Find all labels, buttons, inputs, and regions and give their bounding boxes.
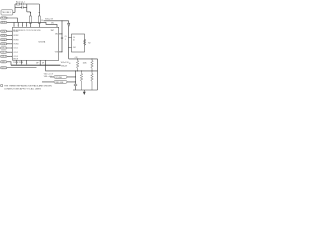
resistor R4 lower [80,71,82,90]
connector pill HS2 [0,21,7,24]
svg-text:RZ: RZ [88,42,90,44]
svg-text:XMT: XMT [51,30,54,32]
svg-text:10: 10 [69,63,71,65]
capacitor C5 in rail [61,37,63,38]
svg-text:100K: 100K [83,63,88,65]
connector pill HS1 [0,17,7,20]
svg-text:TIP LINE: TIP LINE [55,77,61,79]
IC bottom stubs to bus [16,60,27,65]
svg-text:COL 2: COL 2 [1,52,6,54]
wire pill10 to bus [7,62,11,65]
svg-text:VDD=2.5V: VDD=2.5V [45,18,54,20]
resistor R5 lower [91,71,93,90]
connector pill P10 [0,61,6,64]
keypad pill K5 [0,47,6,50]
svg-text:THE THREE REPEATED KEYPADS ARE: THE THREE REPEATED KEYPADS ARE SHOWN [4,84,52,87]
piezo zigzag Z1 [83,39,86,45]
svg-text:ROW 1: ROW 1 [1,31,6,33]
capacitor C5 branch [74,71,77,90]
svg-text:S2559A: S2559A [38,40,45,43]
wire J1 to node A [13,11,15,13]
svg-text:C4: C4 [73,37,75,39]
keypad pill K1 [0,30,6,33]
keypad arrows into IC [7,31,13,57]
svg-text:COL 1: COL 1 [1,48,6,50]
svg-text:ROW4: ROW4 [14,43,19,45]
svg-text:ROW 3: ROW 3 [1,39,6,41]
svg-text:MF: MF [36,62,38,64]
keypad pill K3 [0,38,6,41]
pill P2 (ring) [54,81,67,84]
ground arrow [83,90,86,95]
junction dot line1 [62,20,63,21]
right rail [96,59,98,90]
wire P2 [42,81,75,83]
resistor R2 upper [76,59,78,71]
svg-text:C1 .1: C1 .1 [21,2,25,4]
pin arrow stub 3 [22,22,23,27]
svg-text:XMIT 1: XMIT 1 [1,61,6,63]
handset box BZ1 [71,34,84,52]
svg-text:4.7K: 4.7K [75,57,78,59]
wire pill11 [7,67,37,69]
pin arrow stub 2 [18,22,19,27]
wire top branch [15,4,39,12]
svg-text:.1: .1 [65,39,66,41]
stub x40 to bus [39,60,41,65]
svg-text:ROW 4: ROW 4 [1,43,6,45]
IC right pin stub upper [59,33,62,35]
resistor R3 upper [91,59,93,71]
handset stubs [69,38,72,48]
varistor RV1 [29,12,31,27]
IC right pin stub lower [59,51,62,53]
wire main top [27,11,31,13]
IC U1 [12,27,58,60]
connector box J1 (telephone line) [1,10,13,15]
wire line to V line [44,20,69,22]
svg-text:R1 10: R1 10 [16,2,21,4]
svg-text:DP: DP [42,62,44,64]
capacitor C2 [22,6,23,8]
svg-text:C5: C5 [65,36,67,38]
svg-text:RING LINE: RING LINE [55,82,63,84]
pill P1 (tip) [54,76,67,79]
resistor R1 [17,3,20,5]
svg-text:ROW 2: ROW 2 [1,35,6,37]
connector pill P11 [0,67,7,70]
svg-text:ROW2: ROW2 [14,35,19,37]
keypad pill K2 [0,34,6,37]
svg-text:CM: CM [73,47,76,49]
svg-text:ROW1: ROW1 [14,31,19,33]
capacitor C1 [22,3,23,6]
svg-text:VSS: VSS [55,51,58,53]
note marker [1,85,3,87]
wire vertical rail V1 [61,21,63,52]
arrow down handset feed [67,21,69,59]
svg-text:COL1: COL1 [14,48,18,50]
wire HS1 [7,18,18,23]
svg-text:C3: C3 [41,20,43,22]
pin arrow stub 1 [14,22,15,27]
top rail right [69,58,98,60]
wire node A up [14,4,16,12]
svg-text:ROW3: ROW3 [14,39,19,41]
svg-text:VSS=0V: VSS=0V [61,65,68,67]
keypad pill K7 [0,55,6,58]
wire IC out down-right (mid rail) [46,60,98,71]
svg-text:MUTE 2: MUTE 2 [1,22,7,24]
svg-text:COL 3: COL 3 [1,56,6,58]
keypad pill K6 [0,51,6,54]
bottom rail [73,89,98,91]
dark bus line [11,64,60,66]
svg-text:RCV 12: RCV 12 [1,67,7,69]
keypad pill K4 [0,43,6,46]
pin arrow stub 4 [26,22,27,27]
svg-text:MODE: MODE [13,59,18,61]
svg-text:TEL LINE 1: TEL LINE 1 [2,12,11,14]
wire P1 [50,76,75,78]
svg-text:COL2: COL2 [14,52,18,54]
wire HS2 bus [7,22,57,27]
wire mid branch [15,6,27,8]
mid rail dots [77,70,78,71]
svg-text:COL3: COL3 [14,56,18,58]
svg-text:10: 10 [73,39,75,41]
svg-text:CONNECTIONS APPLY TO ALL LINES: CONNECTIONS APPLY TO ALL LINES [4,87,42,90]
varistor RV2 [38,12,40,27]
wire node B down [26,4,28,12]
svg-text:MIC: MIC [51,23,54,25]
